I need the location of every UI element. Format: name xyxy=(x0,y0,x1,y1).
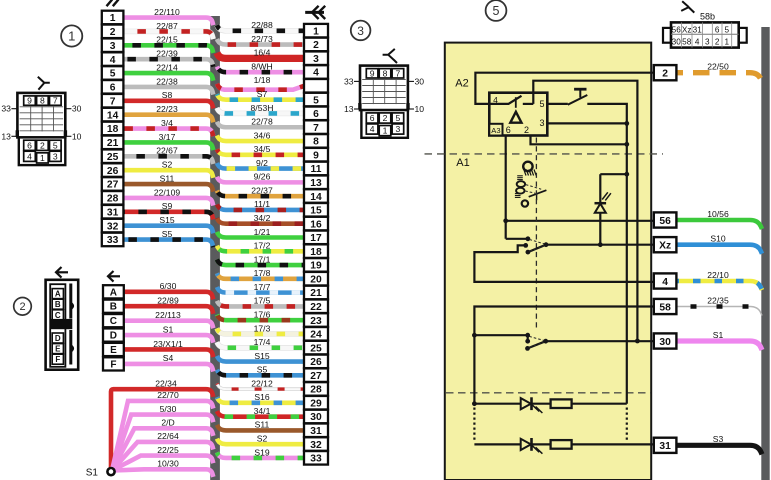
wire 17/5 (right connector pin 22) xyxy=(217,296,304,307)
module pin 58 wire and left rail xyxy=(474,307,653,404)
svg-text:56: 56 xyxy=(672,25,682,34)
svg-text:17/3: 17/3 xyxy=(254,323,271,333)
connector 1 pin box 14 xyxy=(102,108,124,122)
svg-text:1: 1 xyxy=(40,153,45,163)
svg-text:22/39: 22/39 xyxy=(156,49,178,59)
svg-text:28: 28 xyxy=(310,385,322,396)
wire S4 (connector 2 pin F) xyxy=(124,353,214,371)
svg-text:1: 1 xyxy=(68,29,75,44)
svg-text:20: 20 xyxy=(310,274,322,285)
connector 1 pin box 6 xyxy=(102,80,124,94)
svg-text:15: 15 xyxy=(310,206,322,217)
svg-text:33: 33 xyxy=(310,454,322,465)
wire 2/D (from node S1) xyxy=(112,418,213,471)
svg-text:S8: S8 xyxy=(162,90,173,100)
svg-text:26: 26 xyxy=(310,357,322,368)
svg-text:14: 14 xyxy=(107,110,119,121)
svg-text:22/10: 22/10 xyxy=(707,270,729,280)
svg-text:31: 31 xyxy=(693,25,703,34)
wire S7 (right connector pin 5) xyxy=(217,89,304,100)
wire 17/6 (right connector pin 23) xyxy=(217,309,304,320)
svg-text:C: C xyxy=(55,311,61,320)
svg-text:7: 7 xyxy=(53,96,58,106)
wire 22/25 (from node S1) xyxy=(112,445,213,471)
right connector pin box 9 xyxy=(304,148,328,162)
wire S2 (connector 1 pin 26) xyxy=(123,160,213,178)
svg-text:4: 4 xyxy=(662,277,668,288)
svg-text:2: 2 xyxy=(40,140,45,150)
wire 22/50 (module pin 2) xyxy=(677,62,763,82)
svg-text:3: 3 xyxy=(53,151,58,161)
wire 22/110 (connector 1 pin 1) xyxy=(123,7,213,25)
module pin box 30 xyxy=(654,333,677,348)
wire from A3 pin 3 to rail xyxy=(547,122,627,124)
svg-text:Xz: Xz xyxy=(682,25,692,34)
svg-text:22/50: 22/50 xyxy=(707,62,729,72)
warning triangle symbol inside A3 xyxy=(510,112,521,123)
wire 22/37 (right connector pin 14) xyxy=(217,185,304,196)
right connector pin box (blank) xyxy=(304,79,328,93)
wire from A3 pin 6 down to dimmer xyxy=(505,136,507,239)
wire 17/7 (right connector pin 21) xyxy=(217,282,304,293)
module pin box 56 xyxy=(654,212,677,227)
module pin box 31 xyxy=(654,438,677,453)
svg-text:17/1: 17/1 xyxy=(254,254,271,264)
connector 2 housing symbol xyxy=(46,280,79,370)
svg-text:10/30: 10/30 xyxy=(157,459,179,469)
svg-text:58b: 58b xyxy=(700,12,715,22)
wire 9/2 (right connector pin 11) xyxy=(217,158,304,169)
svg-text:21: 21 xyxy=(107,138,119,149)
svg-text:A: A xyxy=(55,290,61,299)
connector 1 pin box 31 xyxy=(102,205,124,219)
svg-text:58: 58 xyxy=(682,38,692,47)
connector 2 pin box C xyxy=(103,314,124,327)
connector 58b pin table xyxy=(663,22,747,47)
connector 1 pin box 27 xyxy=(102,177,124,191)
svg-text:22/35: 22/35 xyxy=(707,295,729,305)
module pin box 58 xyxy=(654,299,677,314)
svg-text:8: 8 xyxy=(383,68,388,78)
svg-text:18: 18 xyxy=(107,124,119,135)
svg-text:33: 33 xyxy=(344,76,354,86)
wire 8/53H (right connector pin 6) xyxy=(217,103,304,114)
svg-text:17/2: 17/2 xyxy=(254,241,271,251)
module block 5 (light switch unit) body xyxy=(445,43,651,480)
svg-text:33: 33 xyxy=(107,235,119,246)
connector 3 face view grid xyxy=(344,66,424,138)
right connector pin box 18 xyxy=(304,244,328,258)
wire 22/87 (connector 1 pin 2) xyxy=(123,21,213,39)
svg-text:2: 2 xyxy=(715,38,720,47)
svg-text:22/109: 22/109 xyxy=(154,187,181,197)
svg-text:C: C xyxy=(110,316,117,327)
svg-text:17/4: 17/4 xyxy=(254,337,271,347)
connector 2 pin box D xyxy=(103,328,124,341)
right connector pin box 27 xyxy=(304,368,328,382)
svg-text:A2: A2 xyxy=(455,78,468,90)
svg-text:1/18: 1/18 xyxy=(254,75,271,85)
wire 22/14 (connector 1 pin 5) xyxy=(123,62,213,80)
svg-text:23/X1/1: 23/X1/1 xyxy=(153,339,183,349)
svg-text:13: 13 xyxy=(310,178,322,189)
connector 1 pin box 3 xyxy=(102,38,124,52)
svg-text:22/23: 22/23 xyxy=(156,104,178,114)
junction dot pin56 wire xyxy=(503,218,508,223)
svg-text:4: 4 xyxy=(695,38,700,47)
wire 22/109 (connector 1 pin 28) xyxy=(123,187,213,205)
wire 22/12 (right connector pin 28) xyxy=(217,378,304,389)
right connector pin box 23 xyxy=(304,313,328,327)
svg-text:28: 28 xyxy=(107,194,119,205)
svg-text:5: 5 xyxy=(313,95,319,106)
connector 1 pin box 21 xyxy=(102,136,124,150)
svg-text:S16: S16 xyxy=(254,392,270,402)
circled 3 callout xyxy=(351,21,371,41)
connector 2 pin box B xyxy=(103,300,124,313)
right connector pin box 29 xyxy=(304,396,328,410)
wire 34/5 (right connector pin 9) xyxy=(217,144,304,155)
svg-text:13: 13 xyxy=(1,131,11,141)
switch contact inside A3 xyxy=(489,96,521,104)
svg-text:16/4: 16/4 xyxy=(254,48,271,58)
svg-text:S3: S3 xyxy=(713,434,724,444)
wire from A3 pin 2 to rail xyxy=(531,136,627,145)
svg-text:S2: S2 xyxy=(257,434,268,444)
wire 34/1 (right connector pin 30) xyxy=(217,406,304,417)
svg-text:21: 21 xyxy=(310,288,322,299)
wire S2 (right connector pin 32) xyxy=(217,434,304,445)
svg-text:A3: A3 xyxy=(491,126,500,135)
right connector pin box 31 xyxy=(304,424,328,438)
svg-text:22/113: 22/113 xyxy=(155,310,181,320)
wire 3/4 (connector 1 pin 18) xyxy=(123,118,213,136)
svg-text:S1: S1 xyxy=(86,468,99,479)
connector 1 pin box 28 xyxy=(102,191,124,205)
svg-text:30: 30 xyxy=(72,104,82,114)
svg-text:S15: S15 xyxy=(159,215,175,225)
wire 34/2 (right connector pin 16) xyxy=(217,213,304,224)
svg-text:8/WH: 8/WH xyxy=(251,61,272,71)
instrument illumination dimmer symbol xyxy=(515,176,547,207)
svg-text:6: 6 xyxy=(506,125,511,135)
svg-text:22/64: 22/64 xyxy=(157,431,179,441)
connector 2 pin box F xyxy=(103,357,124,370)
svg-text:4: 4 xyxy=(110,55,116,66)
headlight beam symbol xyxy=(523,162,536,176)
svg-text:56: 56 xyxy=(659,216,671,227)
svg-text:B: B xyxy=(110,302,117,313)
svg-text:22/14: 22/14 xyxy=(156,62,178,72)
wire 22/15 (connector 1 pin 3) xyxy=(123,35,213,53)
svg-text:30: 30 xyxy=(659,337,671,348)
wire to headlight switch first contact xyxy=(506,238,528,240)
svg-text:22/78: 22/78 xyxy=(251,117,273,127)
svg-text:1: 1 xyxy=(725,38,730,47)
svg-text:58: 58 xyxy=(659,302,671,313)
svg-text:4: 4 xyxy=(370,124,375,134)
wire S8 (connector 1 pin 7) xyxy=(123,90,213,108)
A3 label box xyxy=(489,124,502,136)
right connector pin box 15 xyxy=(304,203,328,217)
svg-text:6: 6 xyxy=(110,83,116,94)
svg-text:34/5: 34/5 xyxy=(254,144,271,154)
wire 22/39 (connector 1 pin 4) xyxy=(123,49,213,67)
right connector pin box 11 xyxy=(304,162,328,176)
right connector pin box 1 xyxy=(304,24,328,38)
svg-text:1: 1 xyxy=(313,26,319,37)
right connector pin box 21 xyxy=(304,286,328,300)
parking switch feed xyxy=(474,335,527,341)
svg-text:E: E xyxy=(55,345,61,354)
wire 22/78 (right connector pin 7) xyxy=(217,117,304,128)
svg-text:9: 9 xyxy=(370,68,375,78)
right connector pin box 4 xyxy=(304,65,328,79)
svg-text:S15: S15 xyxy=(254,351,270,361)
svg-text:23: 23 xyxy=(310,316,322,327)
svg-text:5: 5 xyxy=(396,113,401,123)
svg-text:1: 1 xyxy=(110,13,116,24)
svg-text:17/6: 17/6 xyxy=(254,309,271,319)
module pin box 2 xyxy=(654,65,677,80)
connector 1 pin box 25 xyxy=(102,149,124,163)
svg-text:22/88: 22/88 xyxy=(251,20,273,30)
svg-text:3: 3 xyxy=(396,124,401,134)
svg-text:F: F xyxy=(55,355,60,364)
zener diode branch xyxy=(595,172,630,247)
connector 1 pin box 2 xyxy=(102,25,124,39)
connector 1 pin box 4 xyxy=(102,52,124,66)
svg-text:3: 3 xyxy=(110,41,116,52)
connector 1 pin box 33 xyxy=(102,233,124,247)
svg-text:S1: S1 xyxy=(713,330,724,340)
svg-text:14: 14 xyxy=(310,192,322,203)
svg-text:22/89: 22/89 xyxy=(157,296,179,306)
test button symbol xyxy=(568,89,588,105)
parking switch contacts xyxy=(525,336,548,350)
wire 17/2 (right connector pin 18) xyxy=(217,241,304,252)
svg-text:22/67: 22/67 xyxy=(156,146,178,156)
svg-text:11/1: 11/1 xyxy=(254,199,270,209)
wire 22/113 (connector 2 pin C) xyxy=(124,310,214,328)
right connector pin box 25 xyxy=(304,341,328,355)
wire from module pin 2 to hazard unit pin 4 xyxy=(475,73,653,104)
junction dot on left rail xyxy=(472,333,477,338)
svg-text:22/73: 22/73 xyxy=(251,34,273,44)
svg-text:17: 17 xyxy=(310,233,322,244)
right connector pin box 17 xyxy=(304,231,328,245)
svg-text:2: 2 xyxy=(19,301,25,313)
svg-text:S19: S19 xyxy=(254,447,270,457)
svg-text:6/30: 6/30 xyxy=(160,281,177,291)
illumination LED and resistor branch 2 to pin 31 xyxy=(474,438,653,454)
right connector pin box 2 xyxy=(304,38,328,52)
wire S1 (connector 2 pin D) xyxy=(124,324,214,342)
svg-text:F: F xyxy=(110,359,116,370)
wire 11/1 (right connector pin 15) xyxy=(217,199,304,210)
svg-text:17/8: 17/8 xyxy=(254,268,271,278)
wire 17/3 (right connector pin 24) xyxy=(217,323,304,334)
svg-text:33: 33 xyxy=(1,104,11,114)
circled 1 callout xyxy=(61,25,82,46)
double-slash harness mark above connector 1 xyxy=(107,0,119,6)
connector 1 pin box 32 xyxy=(102,219,124,233)
wire S15 (right connector pin 26) xyxy=(217,351,304,362)
wire 3/17 (connector 1 pin 21) xyxy=(123,132,213,150)
connector 2 pin box A xyxy=(103,285,124,298)
wire 10/56 (module pin 56) xyxy=(677,209,763,229)
svg-text:Xz: Xz xyxy=(659,241,671,252)
svg-text:7: 7 xyxy=(396,68,401,78)
svg-text:22/15: 22/15 xyxy=(156,35,178,45)
svg-text:5: 5 xyxy=(53,140,58,150)
svg-text:18: 18 xyxy=(310,247,322,258)
svg-text:3: 3 xyxy=(705,38,710,47)
A1/A2 dashed separator xyxy=(425,153,664,155)
svg-text:31: 31 xyxy=(659,441,671,452)
svg-text:30: 30 xyxy=(672,38,682,47)
svg-text:2: 2 xyxy=(110,27,116,38)
svg-text:16: 16 xyxy=(310,219,322,230)
svg-text:5: 5 xyxy=(725,25,730,34)
svg-text:32: 32 xyxy=(107,221,119,232)
svg-text:24: 24 xyxy=(310,330,322,341)
right connector pin box 19 xyxy=(304,258,328,272)
wire 22/73 (right connector pin 2) xyxy=(217,34,304,45)
svg-text:5: 5 xyxy=(493,4,500,18)
wire S11 (connector 1 pin 27) xyxy=(123,173,213,191)
circled 2 callout xyxy=(14,298,32,316)
right connector pin box 24 xyxy=(304,327,328,341)
wire 22/38 (connector 1 pin 6) xyxy=(123,76,213,94)
arrow above connector 2 pin column xyxy=(109,275,121,277)
svg-text:3/17: 3/17 xyxy=(159,132,176,142)
svg-text:E: E xyxy=(110,345,117,356)
svg-text:S9: S9 xyxy=(162,201,173,211)
module pin box Xz xyxy=(654,237,677,252)
svg-text:2/D: 2/D xyxy=(161,418,174,428)
svg-text:6: 6 xyxy=(313,109,319,120)
module pin 30 wire xyxy=(546,340,654,342)
connector 1 pin box 5 xyxy=(102,66,124,80)
svg-text:9/26: 9/26 xyxy=(254,172,271,182)
wire 10/30 (from node S1) xyxy=(112,459,213,477)
hazard relay unit A3 box xyxy=(489,93,547,136)
right connector pin box 22 xyxy=(304,300,328,314)
connector 1 pin box 7 xyxy=(102,94,124,108)
svg-text:S7: S7 xyxy=(257,89,268,99)
svg-text:6: 6 xyxy=(27,140,32,150)
svg-text:1: 1 xyxy=(383,126,388,136)
wire 17/1 (right connector pin 19) xyxy=(217,254,304,265)
svg-text:34/1: 34/1 xyxy=(254,406,271,416)
svg-text:4: 4 xyxy=(313,68,319,79)
svg-text:17/5: 17/5 xyxy=(254,296,271,306)
wire harness trunk (right bundle) xyxy=(761,27,769,480)
svg-text:9: 9 xyxy=(313,150,319,161)
wire S3 (module pin 31) xyxy=(677,434,763,454)
svg-text:7: 7 xyxy=(313,123,319,134)
svg-text:8: 8 xyxy=(40,96,45,106)
svg-text:27: 27 xyxy=(310,371,322,382)
svg-text:22/87: 22/87 xyxy=(156,21,178,31)
svg-text:22: 22 xyxy=(310,302,322,313)
wire 16/4 (right connector pin 3) xyxy=(217,48,304,59)
svg-text:S5: S5 xyxy=(162,229,173,239)
svg-text:6: 6 xyxy=(715,25,720,34)
svg-text:11: 11 xyxy=(311,164,322,175)
wire 22/23 (connector 1 pin 14) xyxy=(123,104,213,122)
illumination LED and resistor branch 1 xyxy=(472,397,627,413)
wire switch to left rail and module pin 4 xyxy=(474,245,653,282)
wire 17/8 (right connector pin 20) xyxy=(217,268,304,279)
svg-text:30: 30 xyxy=(415,76,425,86)
right connector pin box 33 xyxy=(304,451,328,465)
svg-text:D: D xyxy=(110,331,117,342)
wire from button to vertical rail x627 xyxy=(587,104,627,404)
wire 6/30 (connector 2 pin A) xyxy=(124,281,214,299)
wire S9 (connector 1 pin 31) xyxy=(123,201,213,219)
svg-text:22/110: 22/110 xyxy=(154,7,180,17)
wire 22/89 (connector 2 pin B) xyxy=(124,296,214,314)
branch fork symbol above connector 1 grid xyxy=(38,77,50,90)
wire 22/10 (module pin 4) xyxy=(677,270,763,290)
right connector pin box 3 xyxy=(304,51,328,65)
wire 22/34 (from node S1) xyxy=(111,379,213,469)
module pin Xz wire xyxy=(546,244,654,246)
branch fork symbol above connector 3 grid xyxy=(383,49,397,63)
wire 1/18 (right connector pin blank) xyxy=(217,75,304,90)
svg-text:17/7: 17/7 xyxy=(254,282,271,292)
wire 22/70 (from node S1) xyxy=(112,390,213,470)
svg-text:34/2: 34/2 xyxy=(254,213,271,223)
right connector pin box 7 xyxy=(304,120,328,134)
svg-text:9: 9 xyxy=(27,96,32,106)
node S1 terminal xyxy=(86,468,115,479)
svg-text:1/21: 1/21 xyxy=(254,227,271,237)
svg-text:2: 2 xyxy=(313,40,319,51)
wire S1 (module pin 30) xyxy=(677,330,763,350)
svg-text:S1: S1 xyxy=(163,324,174,334)
svg-text:30: 30 xyxy=(310,412,322,423)
right connector pin box 32 xyxy=(304,437,328,451)
svg-text:3: 3 xyxy=(539,118,544,128)
wire from A3 top contact to vertical rail x637 xyxy=(533,81,637,341)
svg-text:31: 31 xyxy=(107,207,119,218)
connector 1 pin box 1 xyxy=(102,11,124,25)
right connector pin box 30 xyxy=(304,410,328,424)
wire 1/21 (right connector pin 17) xyxy=(217,227,304,238)
svg-text:25: 25 xyxy=(310,343,322,354)
wire S10 (module pin Xz) xyxy=(677,234,763,254)
right connector pin box 14 xyxy=(304,189,328,203)
svg-text:34/6: 34/6 xyxy=(254,130,271,140)
svg-text:2: 2 xyxy=(383,113,388,123)
svg-text:3/4: 3/4 xyxy=(161,118,173,128)
svg-text:6: 6 xyxy=(370,113,375,123)
wire 22/35 (module pin 58) xyxy=(677,295,763,315)
svg-text:25: 25 xyxy=(107,152,119,163)
wire 5/30 (from node S1) xyxy=(112,404,213,471)
svg-text:S11: S11 xyxy=(255,420,270,430)
wire from A3 pin 5 to test button xyxy=(547,103,568,105)
svg-text:8: 8 xyxy=(313,137,319,148)
svg-text:S11: S11 xyxy=(160,173,175,183)
right connector pin box 13 xyxy=(304,175,328,189)
wire 9/26 (right connector pin 13) xyxy=(217,172,304,183)
arrow above connector 2 symbol xyxy=(57,271,69,273)
svg-text:5/30: 5/30 xyxy=(160,404,177,414)
